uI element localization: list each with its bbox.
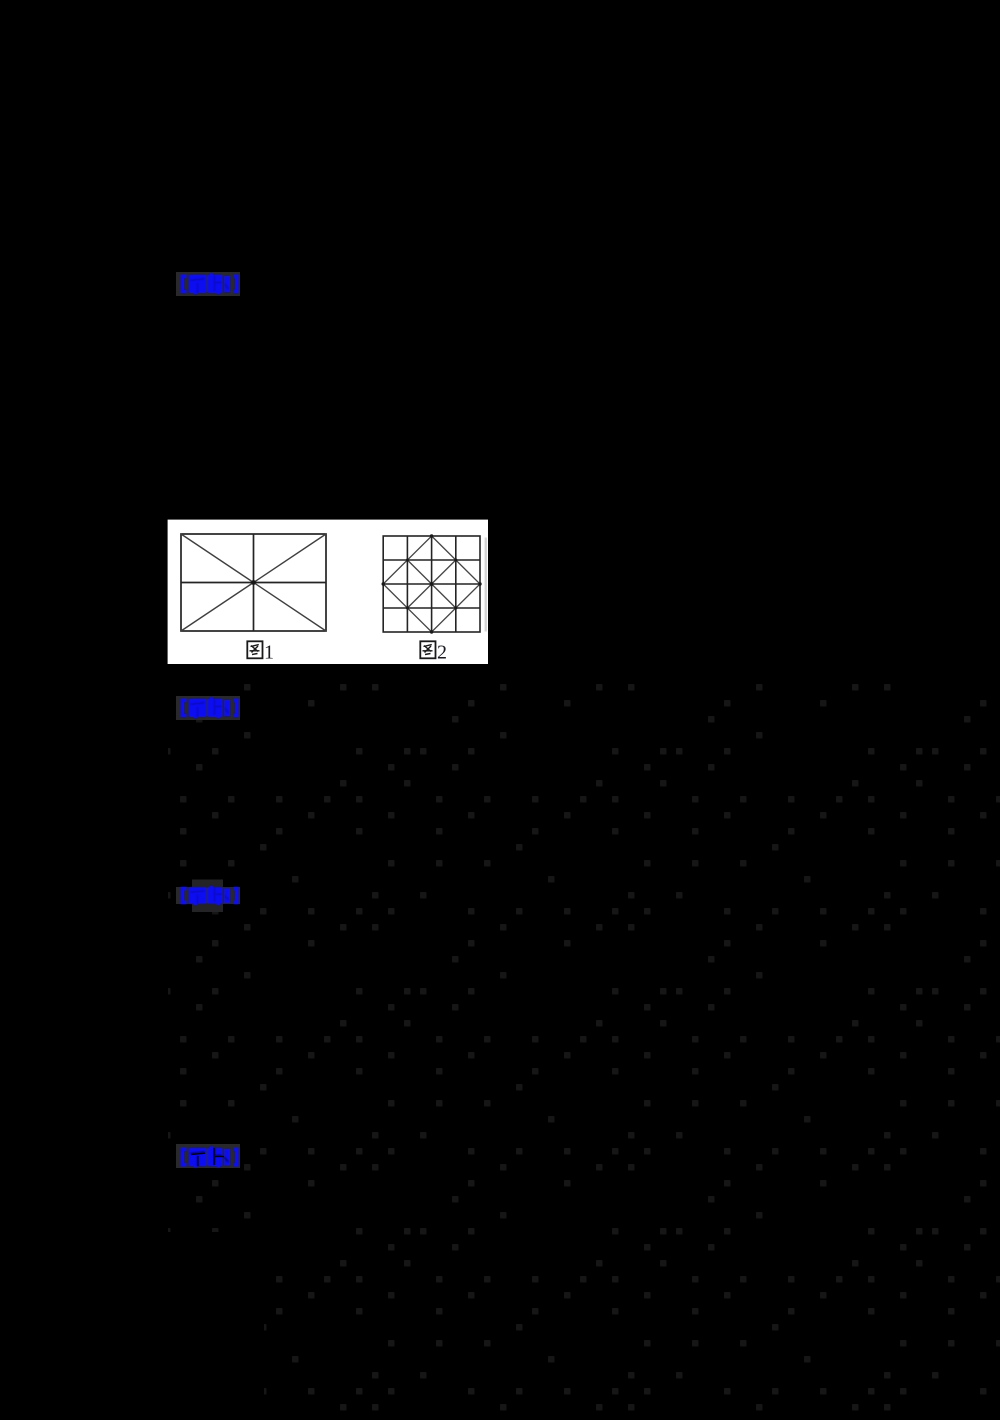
svg-text:1: 1 xyxy=(264,642,274,664)
svg-text:2: 2 xyxy=(437,642,447,664)
